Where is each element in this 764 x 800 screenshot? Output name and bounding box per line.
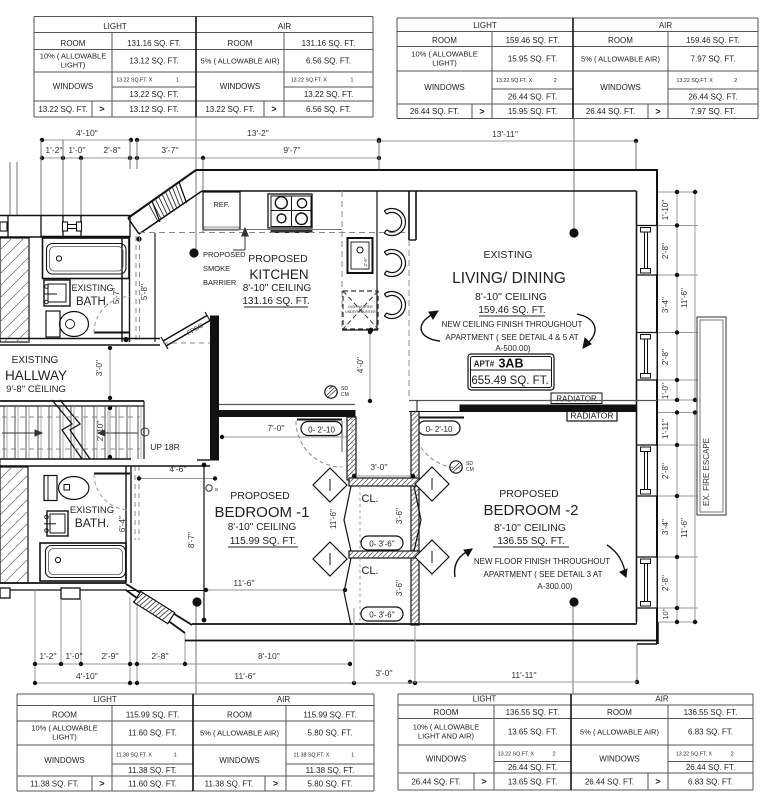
svg-text:WINDOWS: WINDOWS <box>599 755 639 764</box>
svg-text:2'-10'': 2'-10'' <box>96 420 105 441</box>
svg-text:11.38 SQ. FT.: 11.38 SQ. FT. <box>205 779 254 788</box>
svg-text:1'-0'': 1'-0'' <box>68 145 86 155</box>
svg-text:2'-8'': 2'-8'' <box>661 462 670 479</box>
svg-text:10% ( ALLOWABLE: 10% ( ALLOWABLE <box>411 49 477 58</box>
svg-text:9'-7'': 9'-7'' <box>283 145 301 155</box>
svg-text:2'-8'': 2'-8'' <box>661 242 670 259</box>
svg-text:B: B <box>215 487 218 492</box>
svg-text:8'-10'': 8'-10'' <box>258 651 280 661</box>
svg-text:26.44 SQ. FT.: 26.44 SQ. FT. <box>410 107 459 116</box>
svg-text:6.56 SQ. FT.: 6.56 SQ. FT. <box>306 56 351 65</box>
svg-text:10% ( ALLOWABLE: 10% ( ALLOWABLE <box>413 722 479 731</box>
svg-text:0- 3'-6'': 0- 3'-6'' <box>369 540 395 549</box>
svg-text:CM: CM <box>341 392 349 398</box>
svg-text:AIR: AIR <box>278 22 292 31</box>
svg-text:11.38 SQ. FT.: 11.38 SQ. FT. <box>128 766 177 775</box>
svg-text:ROOM: ROOM <box>227 711 252 720</box>
svg-text:>: > <box>481 777 486 787</box>
svg-text:2: 2 <box>734 78 737 84</box>
svg-text:1: 1 <box>351 78 354 84</box>
svg-text:BEDROOM -1: BEDROOM -1 <box>214 504 309 521</box>
svg-text:SMOKE: SMOKE <box>203 264 230 273</box>
svg-text:ROOM: ROOM <box>432 36 457 45</box>
svg-text:26.44 SQ. FT.: 26.44 SQ. FT. <box>686 763 735 772</box>
svg-text:ROOM: ROOM <box>608 36 633 45</box>
svg-text:LIGHT: LIGHT <box>93 695 117 704</box>
svg-text:136.55 SQ. FT.: 136.55 SQ. FT. <box>497 536 564 547</box>
svg-text:RADIATOR: RADIATOR <box>556 395 597 404</box>
svg-text:LIGHT: LIGHT <box>473 21 497 30</box>
svg-text:LIGHT): LIGHT) <box>432 58 457 67</box>
svg-text:PROPOSED: PROPOSED <box>203 250 246 259</box>
svg-text:3AB: 3AB <box>498 357 523 371</box>
svg-text:6.56 SQ. FT.: 6.56 SQ. FT. <box>306 105 351 114</box>
svg-text:ROOM: ROOM <box>52 711 77 720</box>
svg-text:13.22 SQ.FT. X: 13.22 SQ.FT. X <box>677 78 714 84</box>
svg-text:5% ( ALLOWABLE AIR): 5% ( ALLOWABLE AIR) <box>200 729 279 738</box>
svg-text:BARRIER: BARRIER <box>203 278 237 287</box>
svg-text:3'-6'': 3'-6'' <box>395 507 404 524</box>
svg-text:13.12 SQ. FT.: 13.12 SQ. FT. <box>129 105 178 114</box>
svg-text:LIGHT): LIGHT) <box>61 60 86 69</box>
svg-text:5.80 SQ. FT.: 5.80 SQ. FT. <box>308 729 353 738</box>
svg-text:8'-10'' CEILING: 8'-10'' CEILING <box>475 291 547 303</box>
svg-text:26.44 SQ. FT.: 26.44 SQ. FT. <box>508 763 557 772</box>
svg-text:13.65 SQ. FT.: 13.65 SQ. FT. <box>508 777 557 786</box>
svg-text:7.97 SQ. FT.: 7.97 SQ. FT. <box>691 54 736 63</box>
svg-text:A-300.00): A-300.00) <box>537 582 572 591</box>
svg-text:8'-10'' CEILING: 8'-10'' CEILING <box>243 283 312 294</box>
svg-text:5'-8'': 5'-8'' <box>140 283 149 300</box>
svg-text:11'-6'': 11'-6'' <box>329 509 338 529</box>
svg-text:0- 2'-10: 0- 2'-10 <box>426 425 453 434</box>
svg-text:APT#: APT# <box>474 360 495 369</box>
svg-text:1'-0'': 1'-0'' <box>661 382 670 399</box>
svg-text:1'-0'': 1'-0'' <box>65 651 83 661</box>
svg-text:AIR: AIR <box>277 695 291 704</box>
svg-text:131.16 SQ. FT.: 131.16 SQ. FT. <box>127 39 181 48</box>
svg-text:6.83 SQ. FT.: 6.83 SQ. FT. <box>688 727 733 736</box>
svg-text:7.97 SQ. FT.: 7.97 SQ. FT. <box>691 107 736 116</box>
svg-text:10% ( ALLOWABLE: 10% ( ALLOWABLE <box>31 724 97 733</box>
svg-text:AIR: AIR <box>655 695 669 704</box>
svg-text:115.99 SQ. FT.: 115.99 SQ. FT. <box>230 536 297 547</box>
svg-text:136.55 SQ. FT.: 136.55 SQ. FT. <box>684 708 738 717</box>
svg-text:159.46 SQ. FT.: 159.46 SQ. FT. <box>478 305 545 316</box>
svg-text:KITCHEN: KITCHEN <box>249 267 308 282</box>
svg-text:WINDOWS: WINDOWS <box>44 756 84 765</box>
svg-text:0- 3'-6'': 0- 3'-6'' <box>369 611 395 620</box>
svg-text:13.22 SQ. FT.: 13.22 SQ. FT. <box>129 90 178 99</box>
svg-text:DISHWASHER: DISHWASHER <box>348 305 373 309</box>
svg-text:2'-8'': 2'-8'' <box>151 651 169 661</box>
svg-text:PROPOSED: PROPOSED <box>248 253 308 265</box>
svg-text:ROOM: ROOM <box>61 39 86 48</box>
svg-text:EXISTING: EXISTING <box>12 355 59 366</box>
svg-text:15.95 SQ. FT.: 15.95 SQ. FT. <box>508 54 557 63</box>
svg-text:3'-4'': 3'-4'' <box>661 296 670 313</box>
svg-text:APARTMENT ( SEE DETAIL 3 AT: APARTMENT ( SEE DETAIL 3 AT <box>484 570 603 579</box>
svg-text:3'-0'': 3'-0'' <box>95 359 104 376</box>
svg-text:11.38 SQ. FT.: 11.38 SQ. FT. <box>30 779 79 788</box>
svg-text:PROPOSED: PROPOSED <box>230 490 290 502</box>
svg-text:3'-6'': 3'-6'' <box>395 579 404 596</box>
svg-text:LIGHT: LIGHT <box>103 22 127 31</box>
svg-text:13.22 SQ. FT.: 13.22 SQ. FT. <box>38 105 87 114</box>
svg-text:LIVING/ DINING: LIVING/ DINING <box>452 270 566 287</box>
svg-text:>: > <box>273 779 278 789</box>
svg-text:1: 1 <box>176 78 179 84</box>
svg-text:115.99 SQ. FT.: 115.99 SQ. FT. <box>126 711 179 720</box>
svg-text:13.22 SQ. FT.: 13.22 SQ. FT. <box>205 105 254 114</box>
svg-text:11'-11'': 11'-11'' <box>511 670 537 680</box>
svg-text:6.83 SQ. FT.: 6.83 SQ. FT. <box>688 777 733 786</box>
svg-text:26.44 SQ. FT.: 26.44 SQ. FT. <box>508 92 557 101</box>
svg-text:A-500.00): A-500.00) <box>495 344 530 353</box>
svg-text:>: > <box>271 104 276 114</box>
svg-text:2'-9'': 2'-9'' <box>101 651 119 661</box>
svg-text:>: > <box>655 777 660 787</box>
svg-text:11'-6'': 11'-6'' <box>680 288 689 308</box>
svg-text:ROOM: ROOM <box>434 708 459 717</box>
svg-text:APARTMENT ( SEE DETAIL 4 & 5 A: APARTMENT ( SEE DETAIL 4 & 5 AT <box>445 333 578 342</box>
svg-text:3'-0'': 3'-0'' <box>370 462 388 472</box>
svg-text:5% ( ALLOWABLE AIR): 5% ( ALLOWABLE AIR) <box>201 56 280 65</box>
svg-text:ROOM: ROOM <box>607 708 632 717</box>
svg-text:13.22 SQ.FT. X: 13.22 SQ.FT. X <box>496 78 533 84</box>
svg-text:26.44 SQ. FT.: 26.44 SQ. FT. <box>411 777 460 786</box>
svg-text:4'-10'': 4'-10'' <box>76 671 98 681</box>
svg-text:13.12 SQ. FT.: 13.12 SQ. FT. <box>129 56 178 65</box>
svg-text:REF.: REF. <box>213 200 229 209</box>
svg-text:5% ( ALLOWABLE AIR): 5% ( ALLOWABLE AIR) <box>580 727 659 736</box>
svg-text:7'-0'': 7'-0'' <box>267 423 285 433</box>
svg-text:11.60 SQ. FT.: 11.60 SQ. FT. <box>128 779 177 788</box>
svg-text:CL.: CL. <box>361 565 378 577</box>
svg-text:1'-2'': 1'-2'' <box>45 145 63 155</box>
svg-text:1'-2'': 1'-2'' <box>39 651 57 661</box>
svg-text:8'-10'' CEILING: 8'-10'' CEILING <box>228 522 297 533</box>
svg-text:WINDOWS: WINDOWS <box>53 82 93 91</box>
svg-text:4'-0'': 4'-0'' <box>356 356 365 373</box>
svg-text:2'-8'': 2'-8'' <box>661 574 670 591</box>
svg-text:WINDOWS: WINDOWS <box>424 83 464 92</box>
svg-text:0- 2'-10: 0- 2'-10 <box>308 426 335 435</box>
svg-text:LIGHT): LIGHT) <box>52 733 77 742</box>
svg-text:26.44 SQ. FT.: 26.44 SQ. FT. <box>585 777 634 786</box>
svg-text:13.22 SQ.FT. X: 13.22 SQ.FT. X <box>291 78 328 84</box>
svg-text:EXISTING: EXISTING <box>71 283 113 293</box>
svg-text:131.16 SQ. FT.: 131.16 SQ. FT. <box>302 39 356 48</box>
svg-text:2: 2 <box>553 751 556 757</box>
svg-text:>: > <box>99 779 104 789</box>
svg-text:ROOM: ROOM <box>228 39 253 48</box>
svg-text:11.38 SQ. FT.: 11.38 SQ. FT. <box>306 766 355 775</box>
svg-text:UNDERCOUNTER: UNDERCOUNTER <box>345 310 376 314</box>
svg-text:BEDROOM -2: BEDROOM -2 <box>483 502 578 519</box>
svg-text:2'-8'': 2'-8'' <box>661 348 670 365</box>
svg-text:159.46 SQ. FT.: 159.46 SQ. FT. <box>506 36 560 45</box>
svg-text:5.80 SQ. FT.: 5.80 SQ. FT. <box>308 779 353 788</box>
svg-text:2'-8'': 2'-8'' <box>103 145 121 155</box>
svg-text:CM: CM <box>466 467 474 473</box>
svg-text:WINDOWS: WINDOWS <box>426 755 466 764</box>
svg-text:UP 18R: UP 18R <box>150 442 180 452</box>
svg-text:8'-10'' CEILING: 8'-10'' CEILING <box>494 522 566 534</box>
svg-text:WINDOWS: WINDOWS <box>220 82 260 91</box>
svg-text:15.95 SQ. FT.: 15.95 SQ. FT. <box>508 107 557 116</box>
svg-text:13.22 SQ.FT. X: 13.22 SQ.FT. X <box>498 751 535 757</box>
svg-text:CL.: CL. <box>361 493 378 505</box>
svg-text:1'-11'': 1'-11'' <box>661 419 670 439</box>
svg-text:>: > <box>99 104 104 114</box>
svg-text:WINDOWS: WINDOWS <box>600 83 640 92</box>
svg-text:HALLWAY: HALLWAY <box>5 368 67 383</box>
svg-text:11.38 SQ.FT. X: 11.38 SQ.FT. X <box>294 753 330 759</box>
svg-text:13.22 SQ. FT.: 13.22 SQ. FT. <box>304 90 353 99</box>
svg-text:3'-0'': 3'-0'' <box>375 668 393 678</box>
svg-text:5'-7'': 5'-7'' <box>112 287 121 304</box>
svg-text:11'-6'': 11'-6'' <box>233 578 255 588</box>
svg-text:2'-5'': 2'-5'' <box>363 257 368 266</box>
svg-text:8'-7'': 8'-7'' <box>187 531 196 548</box>
svg-text:26.44 SQ. FT.: 26.44 SQ. FT. <box>586 107 635 116</box>
svg-text:BATH.: BATH. <box>75 516 109 530</box>
svg-text:EXISTING: EXISTING <box>70 505 114 516</box>
svg-text:LIGHT: LIGHT <box>473 695 497 704</box>
svg-text:BATH.: BATH. <box>76 296 109 308</box>
svg-text:>: > <box>479 106 484 116</box>
svg-text:13.65 SQ. FT.: 13.65 SQ. FT. <box>508 727 557 736</box>
svg-text:2: 2 <box>554 78 557 84</box>
svg-text:>: > <box>655 106 660 116</box>
svg-text:9'-8'' CEILING: 9'-8'' CEILING <box>6 384 66 395</box>
svg-text:EX. FIRE ESCAPE: EX. FIRE ESCAPE <box>702 438 711 506</box>
svg-text:11.60 SQ. FT.: 11.60 SQ. FT. <box>128 729 177 738</box>
svg-text:3'-7'': 3'-7'' <box>161 145 179 155</box>
svg-text:13'-11'': 13'-11'' <box>492 129 518 139</box>
svg-text:115.99 SQ. FT.: 115.99 SQ. FT. <box>303 711 356 720</box>
svg-text:13'-2'': 13'-2'' <box>247 128 269 138</box>
svg-text:10% ( ALLOWABLE: 10% ( ALLOWABLE <box>40 51 106 60</box>
svg-text:26.44 SQ. FT.: 26.44 SQ. FT. <box>688 92 737 101</box>
svg-text:NEW CEILING FINISH THROUGHOUT: NEW CEILING FINISH THROUGHOUT <box>442 320 583 329</box>
svg-text:10'': 10'' <box>661 608 670 620</box>
svg-text:13.22 SQ.FT. X: 13.22 SQ.FT. X <box>116 78 153 84</box>
svg-text:11.38 SQ.FT. X: 11.38 SQ.FT. X <box>116 753 152 759</box>
svg-text:1'-10'': 1'-10'' <box>661 199 670 220</box>
svg-text:655.49 SQ. FT.: 655.49 SQ. FT. <box>471 375 548 387</box>
svg-text:11'-6'': 11'-6'' <box>234 671 256 681</box>
svg-text:4'-10'': 4'-10'' <box>76 128 98 138</box>
svg-text:6'-4'': 6'-4'' <box>118 515 127 532</box>
svg-text:13.22 SQ.FT. X: 13.22 SQ.FT. X <box>676 751 713 757</box>
svg-text:3'-4'': 3'-4'' <box>661 518 670 535</box>
svg-text:159.46 SQ. FT.: 159.46 SQ. FT. <box>686 36 740 45</box>
svg-text:11'-6'': 11'-6'' <box>680 518 689 538</box>
svg-text:WINDOWS: WINDOWS <box>219 756 259 765</box>
svg-text:5% ( ALLOWABLE AIR): 5% ( ALLOWABLE AIR) <box>581 54 660 63</box>
svg-text:136.55 SQ. FT.: 136.55 SQ. FT. <box>506 708 560 717</box>
svg-text:2: 2 <box>731 751 734 757</box>
svg-text:LIGHT AND AIR): LIGHT AND AIR) <box>418 731 475 740</box>
svg-text:NEW FLOOR FINISH THROUGHOUT: NEW FLOOR FINISH THROUGHOUT <box>474 557 610 566</box>
svg-text:1: 1 <box>351 753 354 759</box>
svg-text:EXISTING: EXISTING <box>483 249 532 261</box>
svg-text:PROPOSED: PROPOSED <box>499 488 559 500</box>
svg-text:1: 1 <box>174 753 177 759</box>
svg-text:AIR: AIR <box>659 21 673 30</box>
svg-text:131.16 SQ. FT.: 131.16 SQ. FT. <box>242 296 309 307</box>
